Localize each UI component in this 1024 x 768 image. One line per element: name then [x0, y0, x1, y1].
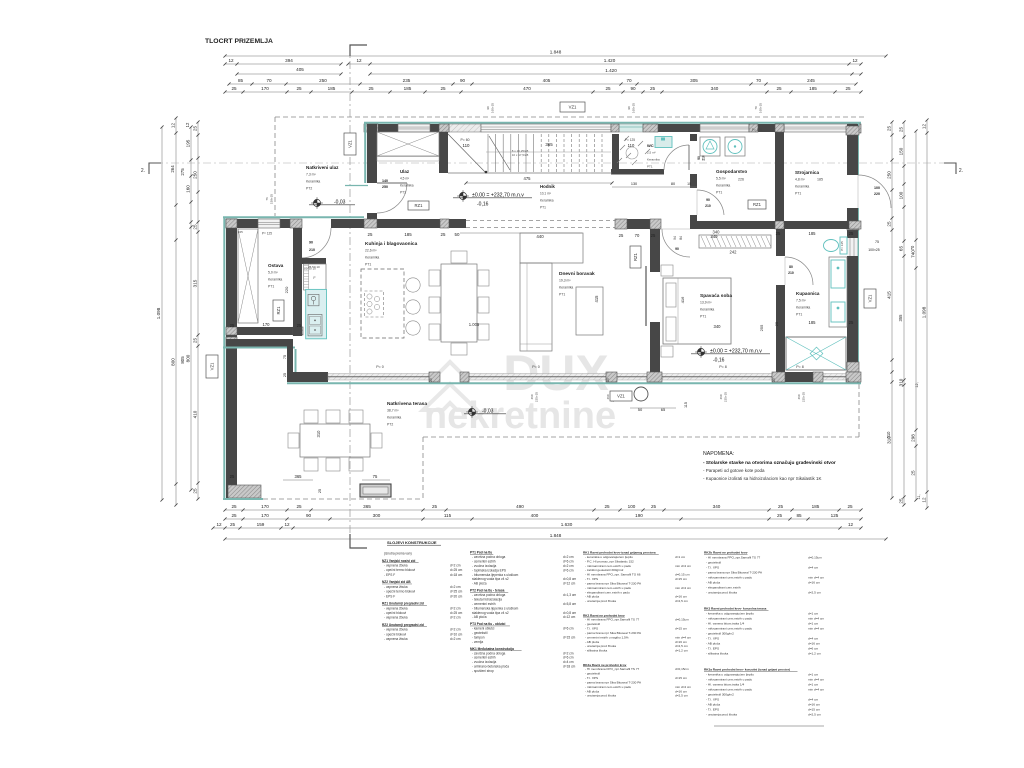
svg-text:Strojarnica: Strojarnica	[795, 170, 819, 175]
wc left wall	[612, 134, 619, 174]
svg-text:2.: 2.	[959, 168, 963, 174]
svg-text:800: 800	[171, 358, 176, 366]
svg-text:170: 170	[263, 322, 271, 327]
svg-text:1.005: 1.005	[469, 322, 480, 327]
svg-text:- HI membrana FPO_npr.Sarnafil: - HI membrana FPO_npr.Sarnafil TS 77	[585, 618, 640, 622]
svg-text:100: 100	[874, 186, 880, 190]
svg-text:RK3 Ravni prohodni krov- konzo: RK3 Ravni prohodni krov- konzolna terasa	[704, 607, 767, 611]
svg-text:210: 210	[705, 204, 711, 208]
svg-text:160: 160	[186, 185, 191, 193]
svg-text:310: 310	[899, 378, 904, 386]
svg-text:- AB ploča: - AB ploča	[585, 640, 599, 644]
top dimension chains	[225, 55, 886, 57]
svg-text:110: 110	[463, 143, 471, 148]
svg-text:PT1: PT1	[700, 314, 706, 318]
svg-text:25: 25	[231, 504, 237, 509]
window north stairs small	[449, 124, 481, 132]
svg-text:12: 12	[228, 58, 234, 63]
svg-text:- unutarnja prod žbuka: - unutarnja prod žbuka	[706, 713, 737, 717]
svg-text:RK2b Ravni ne prohodni krov: RK2b Ravni ne prohodni krov	[704, 551, 748, 555]
svg-text:d=16 cm: d=16 cm	[808, 581, 820, 585]
svg-text:- silikatna žbuka: - silikatna žbuka	[585, 649, 607, 653]
svg-text:- Parapeti od gotove kote poda: - Parapeti od gotove kote poda	[703, 468, 765, 473]
svg-text:75: 75	[875, 240, 879, 244]
svg-text:75: 75	[283, 355, 287, 359]
svg-text:90: 90	[675, 247, 679, 251]
roof overhang dashed outline	[275, 116, 864, 118]
svg-text:210: 210	[788, 271, 794, 275]
svg-text:d=16 cm: d=16 cm	[808, 703, 820, 707]
svg-text:- AB ploča: - AB ploča	[472, 615, 487, 619]
svg-text:25: 25	[899, 498, 904, 504]
svg-text:RZ1: RZ1	[753, 202, 762, 207]
svg-text:- parna brana npr Sika Bitusea: - parna brana npr Sika Bituseal T-230 PA	[706, 571, 763, 575]
svg-text:50: 50	[455, 232, 460, 237]
svg-text:d=0,8 cm: d=0,8 cm	[563, 577, 577, 581]
tag vz1 left	[206, 355, 218, 378]
svg-text:- cementni estrih: - cementni estrih	[472, 656, 496, 660]
svg-text:Keramika: Keramika	[716, 184, 730, 188]
svg-text:RZ1: RZ1	[276, 306, 281, 315]
svg-text:P= 8: P= 8	[796, 365, 804, 369]
svg-text:- spušteni strop: - spušteni strop	[472, 669, 494, 673]
terrace dining table	[300, 424, 370, 457]
tag rz1 ostava	[273, 300, 284, 321]
svg-text:- T.I. EPS: - T.I. EPS	[706, 708, 719, 712]
svg-text:SLOJEVI KONSTRUKCIJE: SLOJEVI KONSTRUKCIJE	[387, 540, 437, 545]
svg-text:90: 90	[697, 156, 701, 160]
svg-text:25: 25	[911, 470, 916, 476]
svg-text:405: 405	[296, 67, 304, 72]
main entry door arc 140/250	[377, 183, 407, 213]
svg-text:- T.I. XPS: - T.I. XPS	[585, 676, 598, 680]
svg-text:- opečni blokovi: - opečni blokovi	[384, 611, 406, 615]
svg-text:315: 315	[193, 279, 198, 287]
svg-text:159+25: 159+25	[270, 194, 274, 204]
svg-text:- HI membrana FPO_npr. Sarnafi: - HI membrana FPO_npr. Sarnafil TG 66	[585, 573, 641, 577]
svg-text:1.420: 1.420	[604, 58, 616, 63]
svg-text:70: 70	[635, 233, 640, 238]
svg-text:MK1 Međukatna konstrukcija: MK1 Međukatna konstrukcija	[470, 647, 514, 651]
svg-text:- T.I. XPS: - T.I. XPS	[585, 577, 598, 581]
svg-text:Kuhinja i blagovaonica: Kuhinja i blagovaonica	[365, 241, 418, 247]
svg-text:nekretnine: nekretnine	[424, 395, 616, 437]
svg-text:160+25: 160+25	[491, 103, 495, 113]
svg-text:Keramika: Keramika	[796, 306, 810, 310]
svg-text:- vapnena žbuka: - vapnena žbuka	[384, 616, 408, 620]
svg-text:25: 25	[899, 127, 904, 133]
svg-text:PT1: PT1	[365, 262, 371, 266]
svg-text:- geotekstil: - geotekstil	[585, 622, 600, 626]
svg-text:310: 310	[316, 430, 321, 438]
svg-text:- vapnena žbuka: - vapnena žbuka	[384, 585, 408, 589]
svg-text:250: 250	[382, 185, 388, 189]
svg-text:- opečni termo blokovi: - opečni termo blokovi	[384, 590, 415, 594]
svg-text:d=6 cm: d=6 cm	[808, 647, 819, 651]
right exterior wall	[847, 124, 858, 175]
bedroom door arc from hall	[662, 229, 690, 257]
svg-text:- T.I. EPS: - T.I. EPS	[706, 647, 719, 651]
svg-text:d=6 cm: d=6 cm	[563, 559, 574, 563]
svg-text:- geotekstil: - geotekstil	[585, 672, 600, 676]
svg-text:d=2,5 cm: d=2,5 cm	[675, 599, 688, 603]
entry wardrobe	[377, 132, 439, 156]
svg-text:- završna podna obloga: - završna podna obloga	[472, 555, 506, 559]
svg-text:Keramika: Keramika	[387, 416, 401, 420]
svg-text:Natkrivena terasa: Natkrivena terasa	[387, 401, 427, 407]
svg-text:245: 245	[807, 78, 815, 83]
svg-text:25: 25	[604, 504, 610, 509]
svg-text:- unutarnja prod žbuka: - unutarnja prod žbuka	[585, 694, 616, 698]
svg-text:185: 185	[809, 86, 817, 91]
svg-text:- završna podna obloga: - završna podna obloga	[472, 593, 506, 597]
svg-text:475: 475	[524, 176, 532, 181]
svg-text:25: 25	[440, 86, 446, 91]
gospodarstvo dryer	[725, 137, 745, 156]
svg-text:-0,03: -0,03	[334, 200, 346, 206]
svg-text:- parna brana npr Sika Bitusea: - parna brana npr Sika Bituseal T-230 PA	[585, 581, 642, 585]
svg-text:d=2 cm: d=2 cm	[450, 563, 461, 567]
hall dim 475	[466, 182, 612, 184]
svg-text:NAPOMENA:: NAPOMENA:	[703, 451, 734, 457]
bedroom-bathroom wall	[776, 229, 785, 256]
svg-text:225+25: 225+25	[535, 392, 539, 402]
svg-text:25: 25	[231, 86, 237, 91]
svg-text:Keramika: Keramika	[365, 256, 379, 260]
svg-text:22,6 m²: 22,6 m²	[365, 249, 377, 253]
svg-text:340: 340	[711, 234, 719, 239]
svg-text:90: 90	[486, 106, 490, 110]
wc door arc	[664, 145, 689, 170]
svg-text:Keramika: Keramika	[700, 308, 714, 312]
svg-text:- vapnena žbuka: - vapnena žbuka	[384, 606, 408, 610]
svg-text:25: 25	[772, 378, 776, 382]
svg-text:220: 220	[284, 286, 289, 293]
svg-text:d=2,5 cm: d=2,5 cm	[808, 713, 821, 717]
svg-text:d=12 cm: d=12 cm	[563, 615, 576, 619]
svg-text:25: 25	[887, 221, 892, 227]
svg-text:85: 85	[238, 78, 244, 83]
svg-text:340: 340	[714, 324, 722, 329]
stair treads	[487, 134, 489, 172]
north wall piers	[364, 124, 378, 132]
svg-text:250: 250	[193, 171, 198, 179]
svg-text:25: 25	[849, 231, 854, 236]
svg-text:P= 125: P= 125	[262, 232, 272, 236]
bathroom door arc	[785, 257, 813, 285]
svg-text:25: 25	[231, 513, 237, 518]
svg-text:- bitumenska ljepenka s uloško: - bitumenska ljepenka s uloškom	[472, 606, 519, 610]
svg-text:WC: WC	[647, 143, 654, 148]
svg-text:- P.C. HI promaz_npr Sikalasti: - P.C. HI promaz_npr Sikalastic 152	[585, 559, 634, 563]
svg-text:d=18 cm: d=18 cm	[563, 665, 576, 669]
svg-text:-0,03: -0,03	[482, 409, 494, 415]
svg-text:90: 90	[706, 198, 710, 202]
svg-text:Spavaća soba: Spavaća soba	[700, 293, 732, 299]
svg-text:- AB ploča: - AB ploča	[706, 642, 720, 646]
svg-text:PT3 Pod na tlu - oblutci: PT3 Pod na tlu - oblutci	[470, 622, 506, 626]
svg-text:25: 25	[296, 504, 302, 509]
bed	[663, 278, 731, 344]
svg-text:805: 805	[180, 356, 185, 364]
svg-text:255: 255	[759, 324, 764, 331]
svg-text:d=25 cm: d=25 cm	[450, 568, 463, 572]
svg-text:d=2 cm: d=2 cm	[563, 564, 574, 568]
svg-text:d=0,8 cm: d=0,8 cm	[563, 611, 577, 615]
terrace chairs	[304, 410, 318, 423]
svg-text:±0.00 = +232,70 m.n.v: ±0.00 = +232,70 m.n.v	[472, 193, 524, 199]
svg-text:d=2 cm: d=2 cm	[563, 555, 574, 559]
svg-text:d=2 cm: d=2 cm	[450, 637, 461, 641]
svg-text:P= 8: P= 8	[719, 365, 727, 369]
svg-text:- EPS F: - EPS F	[384, 594, 395, 598]
svg-text:25: 25	[441, 232, 446, 237]
svg-text:100: 100	[899, 191, 904, 199]
svg-text:264: 264	[170, 165, 175, 173]
svg-text:185: 185	[809, 231, 817, 236]
svg-text:- silikatna žbuka: - silikatna žbuka	[706, 652, 728, 656]
svg-text:PT1 Pod na tlu: PT1 Pod na tlu	[470, 551, 492, 555]
svg-text:- kameni oblutci: - kameni oblutci	[472, 627, 495, 631]
ostava-kitchen wall	[293, 228, 302, 336]
svg-text:100: 100	[628, 504, 636, 509]
watermark logo	[423, 345, 616, 437]
svg-text:2.: 2.	[141, 168, 145, 174]
svg-text:d=1,2 cm: d=1,2 cm	[808, 652, 821, 656]
svg-text:12: 12	[284, 522, 290, 527]
svg-text:d=15 cm: d=15 cm	[675, 676, 687, 680]
window north hall 1	[398, 124, 430, 132]
north exterior wall teal insulation	[364, 122, 861, 124]
svg-text:PT1: PT1	[647, 164, 653, 168]
svg-text:19,3 m²: 19,3 m²	[559, 279, 571, 283]
west porch wall	[364, 122, 366, 183]
svg-text:d=1 cm: d=1 cm	[808, 683, 819, 687]
svg-text:25: 25	[297, 323, 302, 328]
svg-text:84: 84	[679, 236, 683, 240]
svg-text:NZ1 Vanjski nosivi zid: NZ1 Vanjski nosivi zid	[382, 559, 415, 563]
tag vz1 south	[610, 391, 632, 401]
svg-text:70: 70	[754, 106, 758, 110]
west exterior wall teal	[223, 217, 225, 500]
svg-text:d=16 cm: d=16 cm	[675, 640, 687, 644]
ostava shelving	[238, 229, 258, 323]
svg-text:PT1: PT1	[559, 292, 565, 296]
svg-text:d=25 cm: d=25 cm	[450, 590, 463, 594]
staircase	[439, 132, 448, 173]
svg-text:159: 159	[257, 522, 265, 527]
svg-text:RK1 Ravni prohodni krov-iznad: RK1 Ravni prohodni krov-iznad grijanog p…	[583, 551, 656, 555]
svg-text:25: 25	[193, 488, 198, 494]
svg-text:- T.I. XPS: - T.I. XPS	[706, 637, 719, 641]
svg-text:440: 440	[536, 234, 544, 239]
svg-text:225+25: 225+25	[724, 392, 728, 402]
svg-text:- Stolarske stavke na otvorima: - Stolarske stavke na otvorima označuju …	[703, 460, 836, 466]
svg-text:min d=4 cm: min d=4 cm	[808, 678, 824, 682]
svg-text:365: 365	[295, 474, 303, 479]
gospodarstvo door arc	[697, 190, 724, 215]
svg-text:25: 25	[318, 489, 322, 493]
svg-text:min d=4 cm: min d=4 cm	[675, 685, 691, 689]
svg-text:185: 185	[809, 320, 817, 325]
svg-text:1.630: 1.630	[561, 522, 573, 527]
svg-text:305: 305	[690, 78, 698, 83]
svg-text:staklenog voala tipa v4 s2: staklenog voala tipa v4 s2	[472, 611, 509, 615]
svg-text:- HI membrana FPO_npr.Sarnafil: - HI membrana FPO_npr.Sarnafil TS 77	[706, 556, 761, 560]
svg-text:25: 25	[193, 126, 198, 132]
svg-text:- AB ploča: - AB ploča	[706, 581, 720, 585]
svg-text:160+25: 160+25	[759, 103, 763, 113]
svg-text:340: 340	[711, 86, 719, 91]
svg-text:65: 65	[899, 246, 904, 252]
svg-text:12,: 12,	[915, 382, 919, 387]
svg-text:- keramika u odgovarajućem lje: - keramika u odgovarajućem ljepilu	[585, 555, 633, 559]
svg-text:RZ1: RZ1	[415, 203, 424, 208]
svg-text:90: 90	[627, 106, 631, 110]
svg-text:VZ1: VZ1	[617, 394, 625, 399]
svg-text:94: 94	[673, 236, 677, 240]
dining table	[441, 264, 477, 342]
svg-text:d=4 cm: d=4 cm	[808, 637, 819, 641]
svg-text:- HI. vanena bitum.traka 1/4: - HI. vanena bitum.traka 1/4	[706, 683, 744, 687]
svg-text:d=1 cm: d=1 cm	[808, 622, 819, 626]
svg-text:25: 25	[432, 504, 438, 509]
right exterior wall teal	[857, 122, 859, 175]
svg-text:P= 0: P= 0	[376, 365, 384, 369]
svg-text:d=20 cm: d=20 cm	[450, 594, 463, 598]
bottom dimension chains	[225, 509, 861, 511]
svg-text:Dnevni boravak: Dnevni boravak	[559, 271, 595, 277]
svg-text:4,5 m²: 4,5 m²	[400, 177, 409, 181]
kitchen counter	[304, 264, 326, 290]
svg-text:- toplinska izolacija EPS: - toplinska izolacija EPS	[472, 568, 506, 572]
right wall piers	[846, 126, 859, 135]
svg-text:- zemlja: - zemlja	[472, 640, 483, 644]
svg-text:d=2 cm: d=2 cm	[450, 606, 461, 610]
svg-text:210: 210	[309, 248, 315, 252]
svg-text:P= 60: P= 60	[461, 138, 470, 142]
svg-text:- opečni termo blokovi: - opečni termo blokovi	[384, 568, 415, 572]
svg-text:d=16 cm: d=16 cm	[675, 595, 687, 599]
wc bottom wall	[611, 169, 664, 175]
svg-text:- geotekstil: - geotekstil	[706, 561, 721, 565]
svg-text:25: 25	[368, 232, 373, 237]
svg-text:1.098: 1.098	[922, 306, 927, 318]
svg-text:140: 140	[382, 179, 388, 183]
svg-text:25: 25	[429, 378, 433, 382]
svg-text:25: 25	[651, 233, 656, 238]
svg-text:25: 25	[846, 378, 850, 382]
terrace south teal	[223, 498, 263, 500]
svg-text:25 50 10: 25 50 10	[308, 265, 320, 269]
svg-text:- mikroarmirani cem.estrih u p: - mikroarmirani cem.estrih u padu	[706, 688, 752, 692]
svg-text:d=6 cm: d=6 cm	[563, 656, 574, 660]
svg-text:±0.00 = +232,70 m.n.v: ±0.00 = +232,70 m.n.v	[710, 349, 762, 355]
svg-text:7,5 m²: 7,5 m²	[796, 299, 806, 303]
svg-text:90: 90	[630, 86, 636, 91]
tag vz1 top	[560, 102, 585, 112]
shower	[786, 337, 846, 370]
coffee table	[576, 287, 603, 335]
hall level mark	[459, 192, 466, 199]
svg-text:365: 365	[363, 504, 371, 509]
svg-text:85: 85	[796, 513, 802, 518]
svg-text:25: 25	[193, 224, 198, 230]
svg-text:12: 12	[922, 124, 927, 130]
svg-text:80: 80	[789, 265, 793, 269]
tag vz1 porch	[344, 133, 356, 155]
svg-text:d=0,15cm: d=0,15cm	[675, 618, 689, 622]
svg-text:Natkriveni ulaz: Natkriveni ulaz	[306, 165, 339, 170]
svg-text:13,9 m²: 13,9 m²	[700, 301, 712, 305]
svg-text:150: 150	[899, 147, 904, 155]
west wall piers	[226, 219, 237, 228]
left dimension chains	[161, 127, 163, 500]
svg-text:25: 25	[605, 86, 611, 91]
svg-text:d=16 cm: d=16 cm	[675, 689, 687, 693]
svg-text:- cementni estrih: - cementni estrih	[472, 559, 496, 563]
svg-text:PT1: PT1	[540, 205, 546, 209]
kitchen wall stub	[294, 258, 326, 264]
gospodarstvo washer	[700, 137, 720, 156]
svg-text:- unutarnja prod žbuka: - unutarnja prod žbuka	[585, 644, 616, 648]
svg-text:RZ1: RZ1	[633, 252, 638, 261]
island stools	[406, 278, 420, 292]
svg-text:185: 185	[812, 504, 820, 509]
svg-text:Hodnik: Hodnik	[540, 184, 555, 189]
svg-text:d=5,8 cm: d=5,8 cm	[563, 602, 577, 606]
svg-text:470: 470	[523, 86, 531, 91]
svg-text:- zaštitni geotekstil 300g/m2: - zaštitni geotekstil 300g/m2	[585, 568, 624, 572]
svg-text:PT1: PT1	[400, 190, 406, 194]
svg-text:12: 12	[852, 58, 858, 63]
svg-text:PT2: PT2	[387, 422, 393, 426]
svg-text:12: 12	[216, 522, 222, 527]
svg-text:90: 90	[309, 241, 313, 245]
svg-text:185: 185	[404, 232, 412, 237]
living-bedroom wall	[650, 229, 660, 272]
svg-text:250: 250	[319, 78, 327, 83]
svg-text:25: 25	[619, 233, 624, 238]
svg-text:d=12 cm: d=12 cm	[563, 582, 576, 586]
svg-text:Gospodarstvo: Gospodarstvo	[716, 169, 747, 174]
svg-text:PT1: PT1	[795, 191, 801, 195]
svg-text:7,3 m²: 7,3 m²	[306, 173, 316, 177]
svg-text:355: 355	[898, 314, 903, 322]
svg-text:195: 195	[186, 139, 191, 147]
window right bathroom	[848, 238, 858, 256]
kitchen sink	[308, 294, 319, 305]
gospodarstvo-strojarnica wall	[775, 132, 784, 221]
sliding door leaf	[645, 266, 647, 326]
svg-text:RK3a Ravni prohodni krov- konz: RK3a Ravni prohodni krov- konzolni (izna…	[704, 668, 790, 672]
svg-text:- ekspandirani cem.estrih s pa: - ekspandirani cem.estrih s padu	[585, 590, 630, 594]
svg-text:- vapnena žbuka: - vapnena žbuka	[384, 637, 408, 641]
kitchen appliance teal zone	[306, 289, 327, 338]
svg-text:12: 12	[171, 123, 176, 129]
svg-text:VZ1: VZ1	[867, 294, 872, 302]
svg-text:12: 12	[922, 497, 927, 503]
svg-text:d=16 cm: d=16 cm	[808, 642, 820, 646]
svg-text:76: 76	[265, 197, 269, 201]
porch level mark	[313, 199, 320, 206]
svg-text:185: 185	[404, 86, 412, 91]
svg-text:min d=4 cm: min d=4 cm	[675, 635, 691, 639]
section line 1 vertical dash-dot	[349, 45, 351, 545]
svg-text:P= 125: P= 125	[625, 138, 635, 142]
svg-text:PT1: PT1	[796, 312, 802, 316]
svg-text:10 x 17,5/28: 10 x 17,5/28	[512, 153, 529, 157]
